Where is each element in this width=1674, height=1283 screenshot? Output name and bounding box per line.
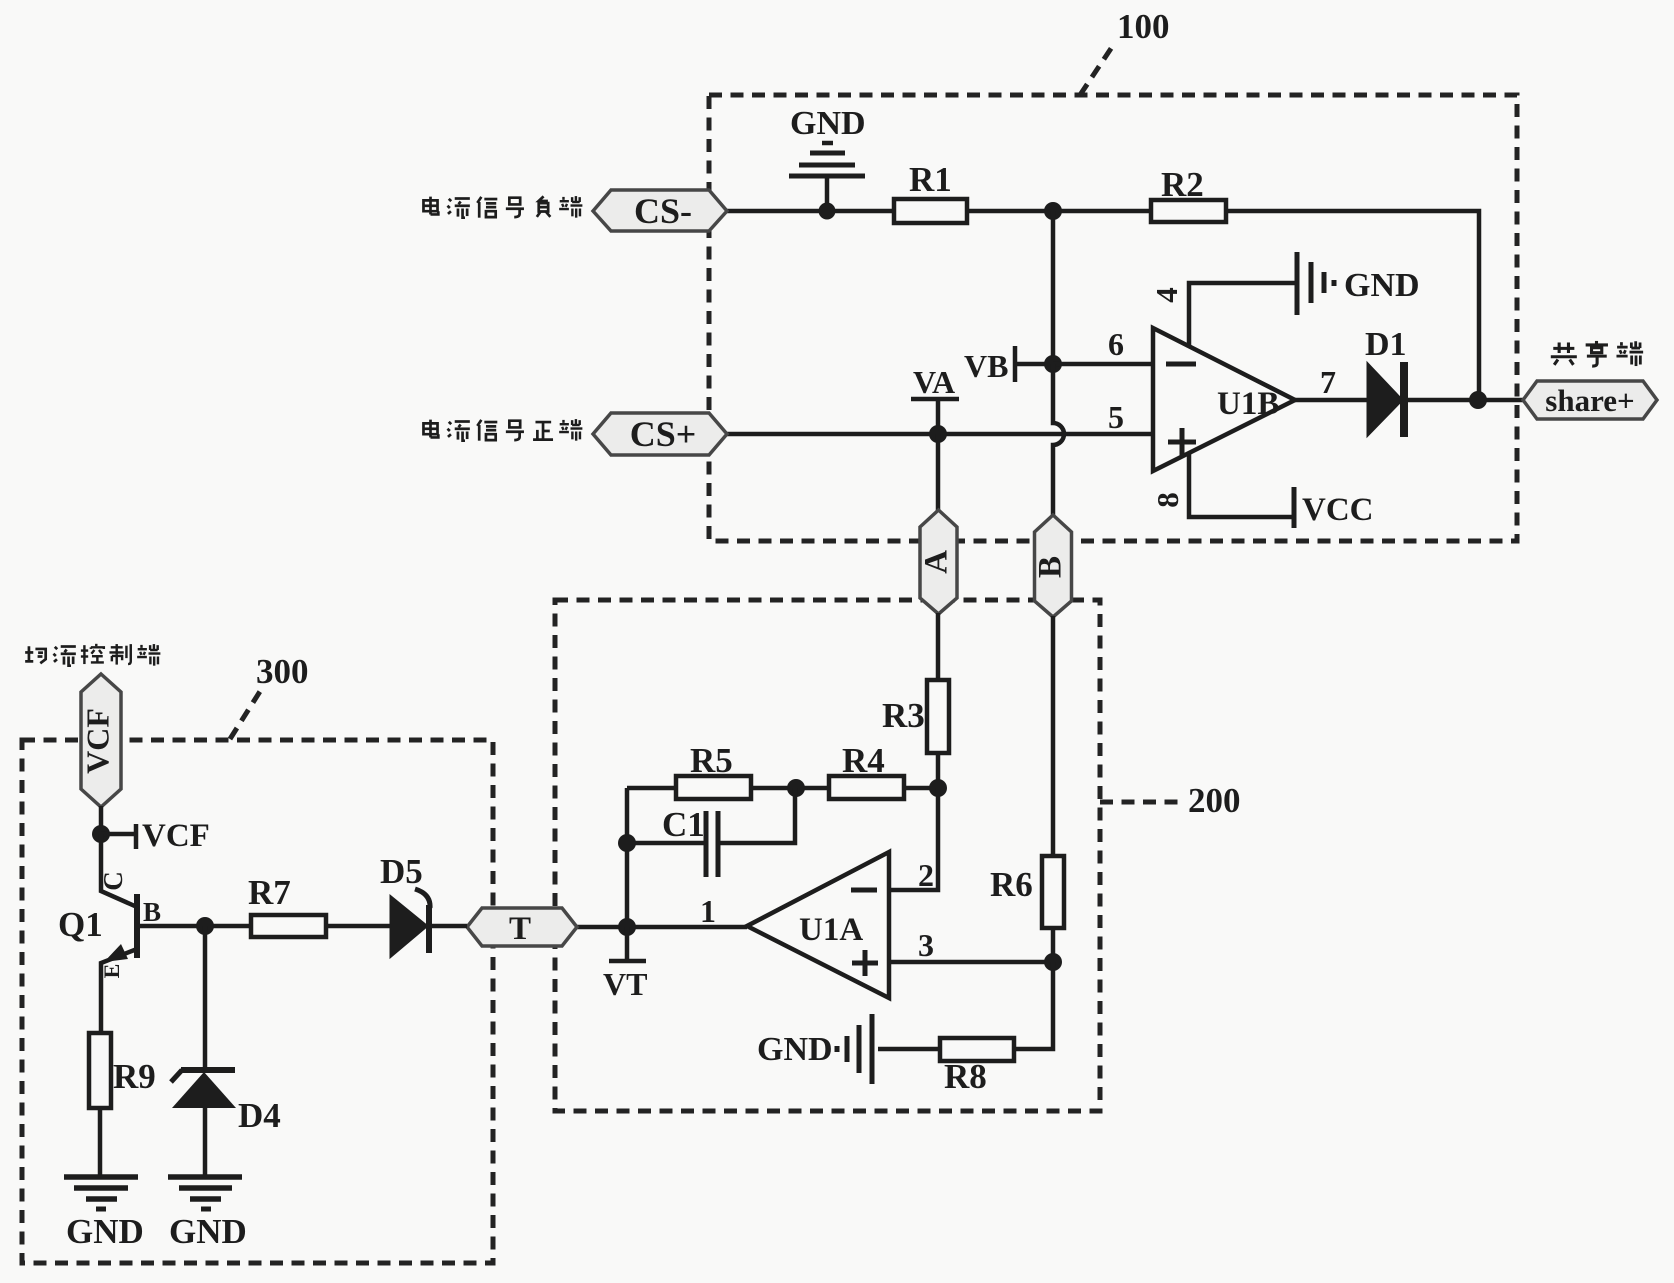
- svg-text:R2: R2: [1161, 165, 1204, 204]
- svg-text:D5: D5: [380, 852, 423, 891]
- transistor Q1: collector wire: [101, 834, 137, 907]
- power VCF probe: [101, 824, 136, 849]
- pin 3 wire: [889, 960, 1053, 965]
- svg-text:B: B: [1033, 556, 1069, 578]
- pin 2 wire: [889, 788, 938, 890]
- svg-text:5: 5: [1108, 399, 1124, 435]
- zener diode D4: [181, 1067, 235, 1073]
- wire left vertical down to pin1: [625, 788, 630, 927]
- junction dot R3/R4/pin2: [929, 779, 947, 797]
- wire node down to VB node: [1051, 211, 1056, 364]
- label flow-sharing control end (Chinese): [25, 646, 46, 663]
- diode D1: [1367, 362, 1403, 437]
- wire R2 to right corner, down to share node: [1226, 211, 1479, 400]
- svg-text:300: 300: [256, 652, 309, 691]
- resistor R8: [940, 1038, 1014, 1061]
- svg-text:3: 3: [918, 927, 934, 963]
- capacitor C1: [627, 841, 704, 846]
- wire CS- to R1: [727, 209, 894, 214]
- transistor Q1: emitter wire with arrow: [101, 949, 137, 1033]
- svg-text:8: 8: [1150, 492, 1185, 508]
- svg-text:GND: GND: [757, 1031, 833, 1068]
- resistor R5: [676, 776, 751, 799]
- wire CS+ to op-amp pin 5: [727, 432, 1153, 437]
- junction dot VB: [1044, 355, 1062, 373]
- label current signal negative end (Chinese): [423, 197, 438, 215]
- diode D5: [390, 895, 428, 958]
- wire D5 to tag T: [432, 924, 467, 929]
- ground GND at pin 4 (sideways earth): [1297, 252, 1334, 315]
- connector tag share+: [1523, 381, 1657, 419]
- connector tag A (vertical): [920, 510, 957, 614]
- dashed box 300 (control block): [22, 740, 493, 1263]
- wire left corner to R5: [627, 786, 676, 791]
- wire R6 to pin3 node: [1051, 928, 1056, 962]
- wire node down to R8: [1014, 962, 1053, 1049]
- svg-text:D1: D1: [1365, 326, 1407, 363]
- junction dot VA: [929, 425, 947, 443]
- wire R9 to ground: [98, 1108, 103, 1177]
- label share terminal (Chinese): [1551, 342, 1577, 364]
- wire R4 to node: [904, 786, 938, 791]
- junction dot C1 left: [618, 834, 636, 852]
- resistor R2: [1151, 200, 1226, 222]
- dashed box 100 (current sampling block): [709, 95, 1517, 541]
- wire pin 7 to D1: [1295, 398, 1367, 403]
- svg-text:R1: R1: [909, 160, 952, 199]
- ground GND top (inverted earth): [789, 143, 865, 211]
- pin 4 wire: [1189, 283, 1295, 346]
- svg-text:U1B: U1B: [1217, 386, 1279, 422]
- svg-text:R5: R5: [690, 741, 733, 780]
- wire D4 to ground: [203, 1108, 208, 1177]
- svg-text:1: 1: [700, 893, 716, 929]
- wire R1 to node B1: [967, 209, 1151, 214]
- wire R8 to ground: [878, 1047, 940, 1052]
- svg-text:D4: D4: [238, 1096, 281, 1135]
- wire D1 to share+ tag: [1408, 398, 1523, 403]
- pin 8 wire: [1189, 453, 1294, 517]
- junction dot VCF: [92, 825, 110, 843]
- ground GND below R9 (earth): [64, 1177, 138, 1209]
- svg-text:4: 4: [1149, 287, 1184, 303]
- wire R5 to R4 with junction: [751, 786, 829, 791]
- wire R7 to D5: [326, 924, 390, 929]
- wire tag B down to R6: [1051, 616, 1056, 856]
- resistor R4: [829, 776, 904, 799]
- svg-text:R4: R4: [842, 741, 885, 780]
- svg-text:Q1: Q1: [58, 905, 103, 944]
- svg-text:share+: share+: [1545, 383, 1634, 418]
- svg-text:C1: C1: [662, 805, 705, 844]
- connector tag VCF (vertical): [81, 674, 121, 807]
- node VT probe: [609, 927, 646, 961]
- svg-text:CS-: CS-: [634, 191, 692, 231]
- junction dot pin3/R6: [1044, 953, 1062, 971]
- op-amp U1A (pointing left): [747, 852, 889, 998]
- svg-text:R7: R7: [248, 873, 291, 912]
- label current signal positive end (Chinese): [423, 420, 438, 438]
- svg-text:U1A: U1A: [799, 912, 863, 948]
- svg-text:R8: R8: [944, 1057, 987, 1096]
- svg-text:GND: GND: [66, 1212, 144, 1251]
- wire tag A to R3: [936, 613, 941, 680]
- svg-text:R6: R6: [990, 865, 1033, 904]
- junction dot share: [1469, 391, 1487, 409]
- resistor R6 (vertical): [1042, 856, 1064, 928]
- ground GND below D4 (earth): [168, 1177, 242, 1209]
- svg-text:VB: VB: [964, 348, 1008, 384]
- connector tag CS-: [593, 190, 727, 231]
- wire base to R7: [137, 924, 251, 929]
- callout line to label 200: [1100, 800, 1183, 805]
- svg-text:VCC: VCC: [1302, 492, 1374, 528]
- power VCC probe at pin 8: [1292, 487, 1297, 528]
- ground GND at R8 (sideways earth): [837, 1014, 872, 1084]
- connector tag CS+: [593, 413, 727, 455]
- svg-text:100: 100: [1117, 7, 1170, 46]
- pin 1 wire from T tag: [577, 925, 747, 930]
- svg-text:CS+: CS+: [630, 414, 697, 454]
- svg-text:7: 7: [1320, 364, 1336, 400]
- connector tag B (vertical): [1035, 515, 1072, 617]
- svg-text:R3: R3: [882, 696, 925, 735]
- junction dot R5/C1: [787, 779, 805, 797]
- svg-text:GND: GND: [790, 105, 866, 142]
- svg-text:VA: VA: [913, 364, 955, 400]
- svg-text:VT: VT: [603, 966, 647, 1002]
- svg-text:VCF: VCF: [79, 708, 115, 774]
- dashed box 200 (amplifier block): [555, 600, 1100, 1111]
- svg-text:E: E: [99, 964, 124, 979]
- svg-text:R9: R9: [113, 1057, 156, 1096]
- transistor Q1: base bar: [134, 894, 140, 958]
- svg-text:6: 6: [1108, 326, 1124, 362]
- wire B branch with hop over CS+ wire: [1053, 364, 1064, 516]
- svg-text:GND: GND: [169, 1212, 247, 1251]
- svg-text:A: A: [919, 550, 955, 574]
- svg-text:2: 2: [918, 857, 934, 893]
- resistor R1: [894, 199, 967, 223]
- op-amp U1B: [1153, 328, 1295, 471]
- svg-text:T: T: [509, 911, 531, 947]
- junction dot CS- / ground: [819, 203, 836, 220]
- svg-text:200: 200: [1188, 781, 1241, 820]
- svg-text:GND: GND: [1344, 267, 1420, 304]
- junction dot pin1/VT: [618, 918, 636, 936]
- resistor R3 (vertical): [927, 680, 949, 753]
- junction dot base/D4: [196, 917, 214, 935]
- svg-text:B: B: [143, 897, 161, 927]
- node: junction dot R1/R2: [1044, 202, 1062, 220]
- wire VCF tag to node: [99, 806, 104, 834]
- node VB probe bar and wire: [1015, 346, 1053, 382]
- resistor R7: [251, 915, 326, 937]
- wire pin6 to op-amp: [1053, 362, 1153, 367]
- resistor R9 (vertical): [89, 1033, 111, 1108]
- callout line to label 100: [1080, 44, 1114, 95]
- wire R3 to node R4: [936, 753, 941, 788]
- callout line to label 300: [230, 685, 264, 739]
- svg-text:VCF: VCF: [142, 818, 210, 854]
- connector tag T (horizontal): [467, 908, 577, 946]
- svg-text:C: C: [98, 871, 128, 891]
- wire VA node down to tag A: [936, 434, 941, 512]
- wire node down to D4: [203, 926, 208, 1068]
